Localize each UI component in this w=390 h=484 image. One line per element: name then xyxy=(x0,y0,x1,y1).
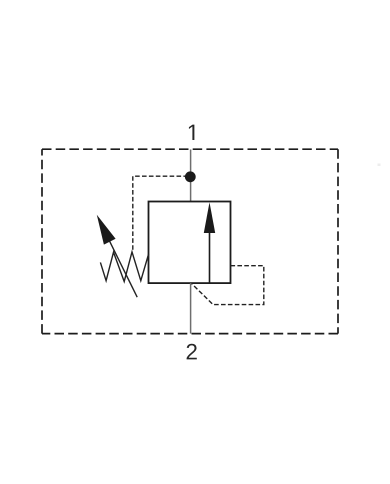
valve body square xyxy=(149,202,231,284)
flow arrow shaft xyxy=(209,230,211,283)
flow arrow head xyxy=(204,202,215,233)
spring (zigzag) xyxy=(100,252,148,282)
port label 1 xyxy=(189,125,194,140)
envelope (dashed enclosure frame) xyxy=(42,149,338,333)
adjustment arrow shaft xyxy=(110,241,138,297)
wire: port 1 line xyxy=(190,150,192,202)
faint print artifact top right xyxy=(378,164,381,167)
port label 2 xyxy=(187,344,197,360)
junction dot xyxy=(185,171,196,182)
pilot line (dashed) from junction to spring xyxy=(133,176,188,250)
pilot drain line (dashed) right side xyxy=(191,266,264,305)
wire: port 2 line xyxy=(190,283,192,334)
adjustment arrow head xyxy=(97,215,116,245)
